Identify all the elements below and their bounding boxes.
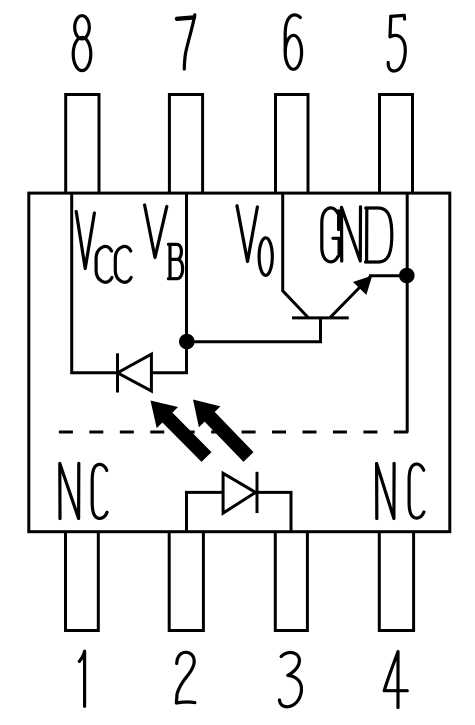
node A (junction dot on VB rail) [179,334,195,350]
label NC (pin 4) [377,464,424,519]
pin number 4 [384,652,407,708]
wire base lead (node A to Q1 base) [187,318,321,342]
wire Vcc rail (left edge of detector box, pin 8) [72,194,118,373]
pin 4 [379,532,413,631]
label Vcc [76,212,131,283]
wire LED cathode (pin 3) [257,492,291,531]
wire GND rail (pin 5) [406,194,409,433]
pin 3 [275,532,307,631]
dashed isolation line [59,431,408,434]
wire VB rail (right edge of detector box, pin 7) [151,194,186,373]
pin 6 [276,95,309,194]
transistor Q1 emitter (to GND rail) [330,276,406,318]
wire LED anode (pin 2) [187,492,224,531]
light arrow 1 [151,401,212,462]
node B (junction dot on GND rail) [399,268,415,284]
LED D2 (points right) [223,472,257,513]
wire collector (pin 6 Vo to Q1) [283,194,308,318]
pin number 6 [285,15,301,69]
pin number 3 [280,653,302,707]
pin 2 [169,532,203,631]
label NC (pin 1) [60,464,107,519]
pin 8 [66,95,99,194]
pin 7 [169,95,202,194]
label Vo [237,206,272,276]
pin 5 [380,95,413,194]
pin number 2 [176,652,194,703]
transistor Q1 base bar [292,316,349,319]
transistor Q1 emitter arrowhead [354,276,372,294]
pin 1 [66,532,99,631]
label VB [145,205,183,279]
pin number 8 [73,16,91,71]
pin number 5 [388,15,405,71]
light arrow 2 [193,400,254,462]
photodiode D1 (points left) [118,353,152,392]
label GND [322,207,392,262]
pin number 7 [177,15,195,69]
pin number 1 [79,651,84,706]
IC body outline [29,193,450,532]
